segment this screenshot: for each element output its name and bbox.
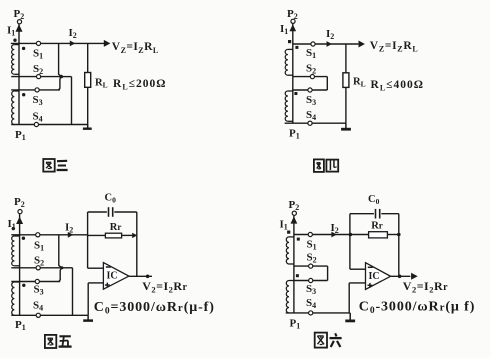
svg-text:V2=I2Rr: V2=I2Rr: [142, 279, 187, 295]
svg-text:RL≤400Ω: RL≤400Ω: [371, 79, 424, 92]
svg-text:C0-3000/ωRr(μ f): C0-3000/ωRr(μ f): [359, 299, 476, 316]
svg-text:Rr: Rr: [371, 221, 383, 232]
svg-text:RL≤200Ω: RL≤200Ω: [113, 78, 166, 91]
svg-text:Rr: Rr: [110, 222, 122, 233]
svg-text:IC: IC: [107, 271, 118, 282]
svg-text:C0=3000/ωRr(μ-f): C0=3000/ωRr(μ-f): [94, 300, 215, 317]
svg-text:V2=I2Rr: V2=I2Rr: [403, 279, 448, 295]
svg-text:VZ=IZRL: VZ=IZRL: [370, 40, 419, 54]
svg-text:VZ=IZRL: VZ=IZRL: [112, 41, 159, 55]
svg-text:IC: IC: [369, 271, 380, 282]
